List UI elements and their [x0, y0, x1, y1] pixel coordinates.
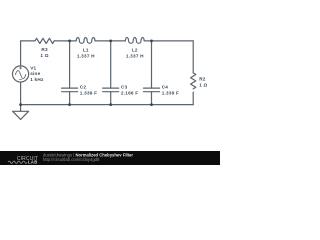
node C2 bottom: [68, 103, 71, 106]
svg-text:R3: R3: [41, 47, 48, 52]
svg-text:sine: sine: [30, 71, 40, 76]
label R3 value 1 Ohm: [40, 47, 48, 58]
label V1: [30, 65, 44, 82]
ground: [13, 105, 29, 120]
capacitor C4: [144, 41, 160, 105]
capacitor C2: [62, 41, 78, 105]
wire L1 to node B: [95, 40, 125, 42]
label R2 value 1 Ohm: [199, 77, 207, 88]
footer banner: [0, 151, 220, 165]
svg-text:1.337 H: 1.337 H: [77, 53, 95, 58]
label L1 value 1.337 H: [77, 47, 95, 58]
svg-text:L2: L2: [132, 47, 138, 52]
inductor L1: [76, 37, 95, 43]
resistor R2: [191, 73, 196, 89]
wire V1 to ground junction: [20, 83, 22, 105]
wire R2 to bottom-right corner: [192, 92, 194, 105]
svg-text:C2: C2: [80, 85, 87, 90]
wire top horizontal left of R3: [21, 40, 35, 42]
wire R3 to node A: [54, 40, 76, 42]
svg-text:L1: L1: [83, 47, 89, 52]
node A top (R3/L1/C2): [68, 40, 71, 43]
svg-text:1 kHz: 1 kHz: [30, 77, 44, 82]
svg-text:R2: R2: [199, 77, 206, 82]
svg-text:1.337 H: 1.337 H: [126, 53, 144, 58]
svg-text:1.339 F: 1.339 F: [80, 91, 97, 96]
wire L2 to top-right corner: [144, 40, 193, 42]
svg-text:V1: V1: [30, 65, 36, 70]
footer title text: [43, 153, 133, 162]
label L2 value 1.337 H: [126, 47, 144, 58]
node ground junction: [19, 103, 22, 106]
svg-text:1 Ω: 1 Ω: [40, 53, 48, 58]
capacitor C3: [103, 41, 119, 105]
node C4 bottom: [150, 103, 153, 106]
svg-text:1 Ω: 1 Ω: [199, 83, 207, 88]
node B top (L1/L2/C3): [109, 40, 112, 43]
svg-text:http://circuitlab.com/c/dxy4gd: http://circuitlab.com/c/dxy4gd8: [43, 157, 100, 162]
label C3 value 2.166 F: [121, 85, 138, 96]
wire bottom horizontal: [21, 104, 194, 106]
node C top (L2/C4): [150, 40, 153, 43]
node C3 bottom: [109, 103, 112, 106]
svg-text:1.339 F: 1.339 F: [162, 91, 179, 96]
wire top-left vertical: [20, 41, 22, 65]
inductor L2: [125, 37, 144, 43]
resistor R3: [35, 38, 54, 43]
svg-text:LAB: LAB: [28, 159, 38, 164]
svg-text:C4: C4: [162, 85, 169, 90]
label C2 value 1.339 F: [80, 85, 97, 96]
voltage source V1: [13, 66, 29, 82]
wire right vertical to R2: [192, 41, 194, 73]
svg-text:2.166 F: 2.166 F: [121, 91, 138, 96]
logo CircuitLab: [8, 156, 38, 164]
label C4 value 1.339 F: [162, 85, 179, 96]
svg-text:C3: C3: [121, 85, 128, 90]
